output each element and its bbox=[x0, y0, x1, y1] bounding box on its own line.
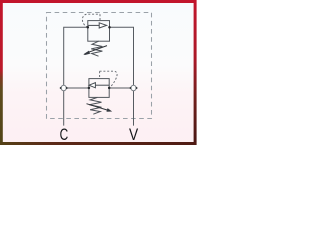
frame right edge bbox=[194, 0, 197, 145]
wire bottom left bbox=[64, 87, 89, 89]
junction RV1 inlet bbox=[87, 26, 90, 29]
node port C tee circle bbox=[60, 85, 68, 90]
relief valve RV2 adjustment arrow bbox=[87, 104, 113, 112]
wire bottom right bbox=[109, 87, 133, 89]
junction RV2 inlet bbox=[108, 87, 111, 90]
junction RV1 outlet bbox=[108, 26, 111, 29]
enclosure dashed boundary bbox=[47, 13, 152, 119]
wire right vertical (port V riser) bbox=[110, 27, 134, 125]
node port V tee circle bbox=[130, 85, 138, 90]
svg-text:V: V bbox=[129, 126, 138, 144]
relief valve RV2 spring bbox=[89, 97, 101, 114]
relief valve RV1 body bbox=[88, 21, 110, 42]
wire left vertical (port C riser) bbox=[64, 27, 88, 125]
junction RV2 outlet bbox=[88, 87, 91, 90]
relief valve RV1 adjustment arrow bbox=[83, 46, 107, 55]
svg-text:C: C bbox=[60, 126, 69, 144]
frame bottom edge bbox=[0, 142, 197, 145]
relief valve RV1 flow arrow bbox=[88, 23, 107, 28]
relief valve RV2 pilot line bbox=[100, 71, 117, 88]
frame left edge bbox=[0, 0, 3, 145]
frame top edge bbox=[0, 0, 197, 3]
relief valve RV1 spring bbox=[91, 41, 102, 56]
relief valve RV2 body bbox=[89, 79, 109, 98]
relief valve RV2 flow arrow bbox=[89, 83, 109, 88]
relief valve RV1 pilot line bbox=[82, 14, 100, 27]
